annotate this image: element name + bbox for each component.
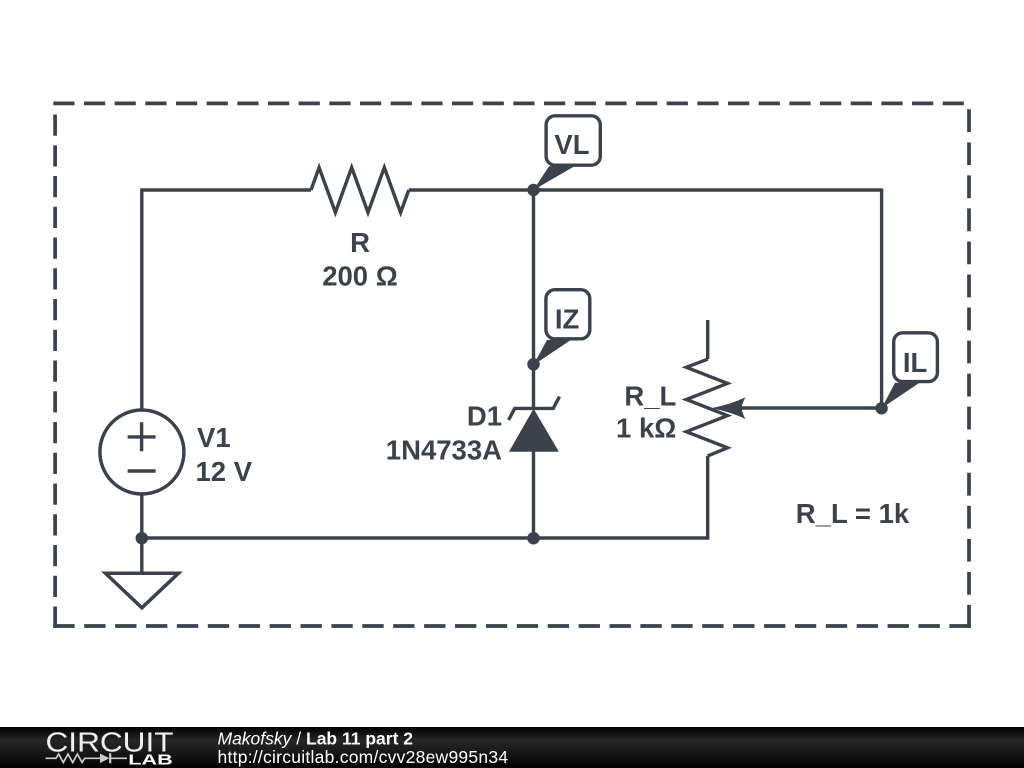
potentiometer R_L bottom stub [706,456,709,540]
flag IZ text [555,304,579,335]
wiper arrowhead [712,397,746,419]
label R name [350,227,370,258]
flag IL box [894,333,938,382]
wire V1 bottom to ground node [140,495,143,539]
svg-text:R_L: R_L [624,380,676,411]
flag VL text [554,129,589,160]
node dot IL corner [875,402,887,414]
footer black bar [0,727,1024,768]
svg-text:200 Ω: 200 Ω [322,261,398,292]
footer title Makofsky / Lab 11 part 2 [218,729,414,749]
footer CircuitLab logo CIRCUIT [46,727,174,758]
zener diode D1 anode triangle [510,410,558,452]
V1 minus sign [128,469,156,472]
flag IZ box [546,290,590,339]
node dot ground junction [136,532,149,545]
voltage source V1 circle [100,410,184,494]
flag VL tail [534,166,575,190]
node dot bottom junction [527,532,540,545]
label D1 name [467,400,502,431]
svg-text:VL: VL [554,129,589,160]
flag IL text [903,347,927,378]
flag IL tail [882,383,920,409]
label R value 200 ohm [322,261,398,292]
node dot IZ point [527,358,540,371]
label R_L value 1 kohm [616,413,676,444]
label V1 name [197,422,231,453]
wire top rail left segment [140,188,311,191]
wire ground stub [140,538,143,573]
svg-text:R: R [350,227,370,258]
wire right vertical down to IL node [880,189,883,409]
wire zener branch lower [532,451,535,538]
svg-text:Makofsky / Lab 11 part 2: Makofsky / Lab 11 part 2 [218,729,414,749]
zener diode D1 cathode bar with bent ends [509,397,560,420]
potentiometer R_L zigzag body [686,359,727,456]
wire wiper to IL node [741,406,882,409]
footer logo schematic squiggle [46,753,128,763]
wire zener branch upper [532,190,535,408]
svg-text:IZ: IZ [555,304,579,335]
label D1 value 1N4733A [386,434,502,465]
svg-text:D1: D1 [467,400,502,431]
ground symbol triangle [105,573,178,608]
svg-text:12 V: 12 V [196,456,253,487]
footer url [218,747,509,767]
label R_L name [624,380,676,411]
svg-text:1N4733A: 1N4733A [386,434,502,465]
node dot VL junction [527,184,539,196]
svg-text:V1: V1 [197,422,231,453]
svg-text:LAB: LAB [128,752,173,768]
svg-text:IL: IL [903,347,927,378]
annotation R_L = 1k [796,498,910,529]
V1 plus sign [128,422,156,451]
wire top rail right segment [409,188,882,191]
wire left vertical (V1 top to top rail) [140,190,143,409]
dashed boundary box [53,103,971,627]
flag VL box [546,116,600,165]
svg-text:http://circuitlab.com/cvv28ew9: http://circuitlab.com/cvv28ew995n34 [218,747,509,767]
flag IZ tail [534,340,572,365]
wire bottom rail [142,536,708,539]
resistor R 200 ohm zigzag [311,168,409,213]
svg-text:1 kΩ: 1 kΩ [616,413,676,444]
label V1 value 12 V [196,456,253,487]
footer CircuitLab logo LAB [128,752,173,768]
svg-text:R_L = 1k: R_L = 1k [796,498,910,529]
potentiometer R_L top stub [706,320,709,359]
